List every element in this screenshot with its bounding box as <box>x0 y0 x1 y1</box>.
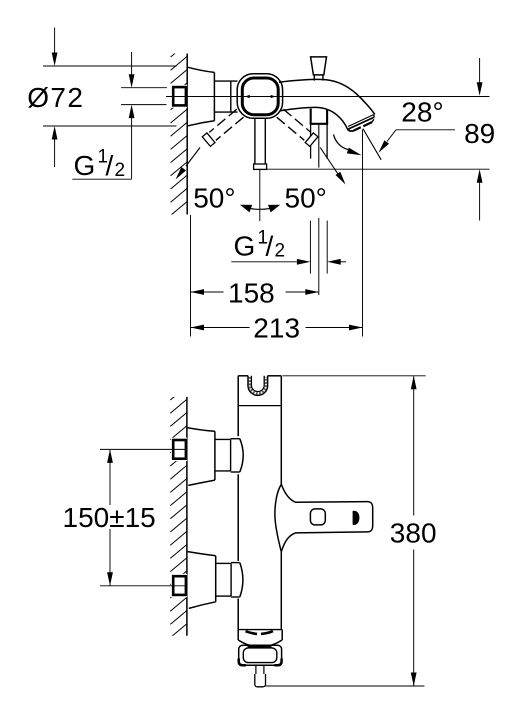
upper union escutcheon <box>188 428 215 432</box>
svg-text:G: G <box>74 150 96 181</box>
spout base thick arc <box>246 631 258 634</box>
aerator housing top thick seam <box>248 645 272 647</box>
svg-text:89: 89 <box>464 118 495 149</box>
body right edge <box>280 376 282 485</box>
arrow at end of right dashed lever <box>320 148 338 175</box>
svg-text:213: 213 <box>253 312 300 343</box>
center marks on squircle <box>245 95 250 98</box>
svg-text:50°: 50° <box>193 183 235 214</box>
handle base outer squircle <box>237 74 282 119</box>
outlet G1/2 extension pair <box>309 221 311 274</box>
lower union nut <box>231 562 240 564</box>
aerator face rim <box>348 115 374 127</box>
dim 28deg leader <box>396 129 455 131</box>
lower union thread stub <box>171 574 187 597</box>
dim G1/2 inlet arrows <box>131 52 133 75</box>
aerator housing outer <box>239 645 282 665</box>
svg-text:G: G <box>234 230 256 261</box>
wall line (front view) <box>186 397 188 636</box>
aerator housing corner marks <box>239 659 246 666</box>
hose hook notch inner <box>251 376 264 392</box>
lever handle (vertical position) <box>254 119 256 165</box>
spout bottom contour <box>281 107 348 128</box>
escutcheon cone (top view) <box>188 67 214 72</box>
lower union centerline <box>100 585 187 587</box>
hose hook notch ring texture <box>250 377 266 393</box>
dim 380 line <box>413 376 415 515</box>
dim &#216;72 extension lines <box>43 65 177 67</box>
svg-text:/: / <box>106 150 114 181</box>
body left edge <box>237 376 239 436</box>
svg-text:158: 158 <box>228 277 275 308</box>
upper union cylinder <box>215 438 231 440</box>
upper union centerline <box>100 448 187 450</box>
neck between escutcheon and body <box>214 80 237 82</box>
extension line at lever bottom <box>266 168 490 170</box>
escutcheon cone white fill <box>188 67 215 126</box>
handle dark mark <box>353 511 359 524</box>
handle base inner squircle (thick) <box>242 78 278 115</box>
handle outline <box>281 484 372 552</box>
curved flow arrow <box>334 135 349 150</box>
dim &#216;72 arrows <box>54 28 56 55</box>
svg-text:28°: 28° <box>401 97 443 128</box>
wall line (top view) <box>186 54 188 215</box>
dim G1/2 inlet extension lines <box>121 87 167 89</box>
aerator housing inner <box>243 648 276 663</box>
svg-text:2: 2 <box>275 240 286 261</box>
body top edge <box>238 375 248 377</box>
svg-text:380: 380 <box>390 518 437 549</box>
spout top contour <box>279 79 375 114</box>
centerline of faucet axis <box>166 96 490 98</box>
upper union thread stub <box>171 438 187 461</box>
svg-text:/: / <box>266 230 274 261</box>
28deg jet line <box>363 129 381 160</box>
svg-text:150±15: 150±15 <box>63 502 156 533</box>
shower outlet (below spout) <box>310 109 312 124</box>
lower union escutcheon <box>188 552 216 556</box>
svg-text:Ø72: Ø72 <box>27 82 83 113</box>
spout bowl <box>237 630 239 640</box>
shower outlet pipe lines <box>310 124 312 159</box>
body joint line <box>238 405 281 407</box>
diverter pull knob <box>311 57 327 75</box>
handle hole <box>310 509 325 525</box>
dim 89 arrows <box>479 58 481 83</box>
outlet centre extension line <box>318 218 320 295</box>
lower union cylinder <box>216 562 231 564</box>
wall plane extension line <box>190 215 192 337</box>
dim G1/2 outlet arrows <box>231 261 298 263</box>
upper union nut <box>231 438 240 440</box>
arrow at end of left dashed lever <box>186 148 200 167</box>
G 1/2 wall connection stub (top view) <box>171 85 187 108</box>
dim 213 line <box>191 327 250 329</box>
hose hook notch outer <box>248 376 268 396</box>
dim 380 extension bottom <box>266 685 425 687</box>
50deg swivel arc <box>251 208 270 211</box>
spout base seam <box>238 629 282 631</box>
svg-text:2: 2 <box>115 160 126 181</box>
wall hatching (front view) <box>170 386 187 651</box>
svg-text:50°: 50° <box>285 183 327 214</box>
dashed lever rotated +50deg <box>283 109 311 132</box>
dim 150 line <box>109 450 111 505</box>
spout end extension line <box>362 130 364 337</box>
dashed lever rotated -50deg <box>216 117 244 140</box>
lever centerline vertical <box>259 169 261 221</box>
dim 380 extension top <box>282 375 425 377</box>
handle neck left bulge <box>275 484 281 552</box>
dim 158 line <box>191 291 224 293</box>
aerator insert <box>354 127 361 130</box>
check valve outlet <box>255 665 257 674</box>
wall hatching (top view) <box>171 43 188 229</box>
